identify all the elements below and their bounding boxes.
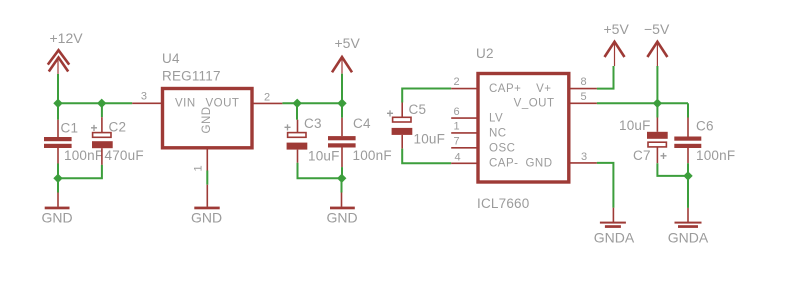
wire +5V arrow to rail <box>341 74 343 104</box>
wire pin 5 rail <box>597 102 688 104</box>
svg-text:NC: NC <box>489 128 507 140</box>
svg-text:C7: C7 <box>633 148 651 163</box>
supply symbol +12V <box>48 30 83 74</box>
capacitor C1 <box>44 120 103 164</box>
ground GNDA (right) <box>668 208 709 246</box>
pin 7 stub of U2 <box>451 147 478 149</box>
wire C1 bottom to gnd junction <box>57 164 59 179</box>
voltage regulator U4 REG1117 box <box>162 51 252 225</box>
wire +5V rail <box>282 102 342 104</box>
svg-text:2: 2 <box>264 91 270 103</box>
ground GNDA (under U2) <box>594 208 635 246</box>
svg-text:8: 8 <box>581 76 587 88</box>
svg-text:GND: GND <box>525 158 552 170</box>
wire junction to C4 <box>341 103 343 117</box>
ground GND (under C3 C4) <box>326 193 357 226</box>
pin 1 stub of U4 <box>206 149 208 170</box>
svg-text:470uF: 470uF <box>105 148 144 163</box>
pin 2 stub of U2 <box>451 88 478 90</box>
node junction at C6 bottom <box>683 171 692 180</box>
svg-text:+5V: +5V <box>604 21 630 37</box>
svg-text:U2: U2 <box>476 46 494 61</box>
wire C3 bottom <box>298 163 342 179</box>
wire pin1 green segment <box>206 171 208 185</box>
pin 1 stub of U2 <box>451 132 478 134</box>
svg-text:100nF: 100nF <box>353 148 392 163</box>
wire junction to C2 <box>101 103 103 117</box>
svg-text:GNDA: GNDA <box>594 230 635 246</box>
svg-text:+12V: +12V <box>50 30 84 46</box>
supply symbol +5V (middle) <box>332 35 360 74</box>
ground GND (left) <box>41 193 72 226</box>
supply symbol +5V (right) <box>604 21 630 66</box>
svg-text:2: 2 <box>454 76 460 88</box>
wire C5 top to pin 2 <box>402 89 451 103</box>
svg-text:4: 4 <box>455 151 461 163</box>
capacitor C7 (polarized, flipped) <box>619 118 668 164</box>
svg-text:C1: C1 <box>61 121 79 136</box>
svg-text:ICL7660: ICL7660 <box>477 196 529 211</box>
svg-text:10uF: 10uF <box>619 118 651 133</box>
svg-text:V+: V+ <box>536 83 551 95</box>
pin 3 stub of U2 <box>569 162 597 164</box>
svg-text:V_OUT: V_OUT <box>514 98 555 110</box>
wire junction to GNDA <box>687 176 689 208</box>
svg-text:OSC: OSC <box>489 142 515 154</box>
wire junction to C1 <box>57 103 59 119</box>
svg-text:CAP-: CAP- <box>489 158 518 170</box>
svg-text:7: 7 <box>454 136 460 148</box>
capacitor C5 (polarized) <box>387 102 446 149</box>
node junction at C1 top <box>53 99 62 108</box>
svg-text:VIN: VIN <box>175 98 196 110</box>
wire C6 bottom <box>687 163 689 176</box>
svg-text:100nF: 100nF <box>696 148 735 163</box>
node junction at C4 bottom <box>337 174 346 183</box>
svg-text:U4: U4 <box>162 51 180 66</box>
capacitor C2 (polarized) <box>91 117 144 165</box>
svg-text:GNDA: GNDA <box>668 230 709 246</box>
pin 4 stub of U2 <box>451 162 478 164</box>
svg-text:GND: GND <box>326 209 357 225</box>
pin 6 stub of U2 <box>451 117 478 119</box>
node junction at C3 top <box>293 99 302 108</box>
svg-text:10uF: 10uF <box>308 149 340 164</box>
pin 5 stub of U2 <box>569 102 597 104</box>
svg-text:+: + <box>660 149 667 163</box>
svg-text:3: 3 <box>141 90 147 102</box>
node junction -5V <box>653 99 662 108</box>
svg-text:LV: LV <box>489 113 503 125</box>
svg-text:1: 1 <box>454 121 460 133</box>
supply symbol -5V <box>644 21 670 66</box>
wire C4 bottom <box>341 167 343 178</box>
wire rail to C6 <box>687 103 689 117</box>
node junction at C2 top <box>97 99 106 108</box>
svg-text:CAP+: CAP+ <box>489 83 521 95</box>
wire C5 bottom to pin 4 <box>402 149 451 164</box>
svg-text:6: 6 <box>454 106 460 118</box>
svg-text:100nF: 100nF <box>64 148 103 163</box>
wire junction to GND <box>341 178 343 192</box>
wire -5V arrow down <box>656 66 658 103</box>
svg-text:10uF: 10uF <box>414 132 446 147</box>
svg-text:GND: GND <box>201 106 213 133</box>
wire junction to C3 <box>296 103 298 119</box>
svg-text:C4: C4 <box>353 116 371 131</box>
svg-text:−5V: −5V <box>644 21 670 37</box>
wire junction to GND <box>57 178 59 192</box>
svg-text:C3: C3 <box>304 116 322 131</box>
svg-text:+5V: +5V <box>335 35 361 51</box>
wire pin 8 to +5V <box>597 66 614 89</box>
svg-text:C5: C5 <box>409 102 427 117</box>
pin 3 stub of U4 <box>132 102 161 104</box>
svg-text:1: 1 <box>193 165 205 171</box>
svg-text:GND: GND <box>41 209 72 225</box>
svg-text:GND: GND <box>191 209 222 225</box>
wire C2 bottom down and left <box>58 165 102 178</box>
pin 2 stub of U4 <box>252 102 282 104</box>
capacitor C6 <box>674 118 735 164</box>
capacitor C3 (polarized) <box>284 116 340 164</box>
svg-text:C6: C6 <box>696 119 714 134</box>
pin 8 stub of U2 <box>569 88 597 90</box>
wire junction to C7 <box>656 103 658 117</box>
svg-text:3: 3 <box>581 151 587 163</box>
svg-text:REG1117: REG1117 <box>162 68 221 83</box>
ground GND (under U4) <box>194 185 219 210</box>
wire pin 3 to GNDA <box>597 163 614 208</box>
node junction at C4 top <box>337 99 346 108</box>
capacitor C4 <box>328 116 392 167</box>
node junction at C1 bottom <box>53 174 62 183</box>
wire +12V to junction <box>57 74 59 103</box>
svg-text:5: 5 <box>581 91 587 103</box>
wire main +12V rail <box>58 102 132 104</box>
IC U2 ICL7660 box <box>476 46 569 211</box>
wire C7 bottom <box>657 163 688 176</box>
